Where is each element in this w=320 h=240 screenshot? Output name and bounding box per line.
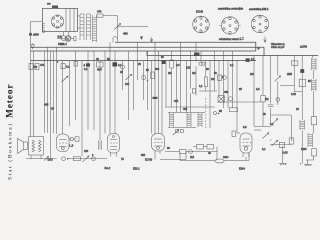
wire osc link (118, 26, 149, 28)
capacitor C1 (29, 33, 32, 36)
loudspeaker LS1 (18, 139, 28, 154)
svg-text:1200: 1200 (301, 148, 307, 151)
svg-text:4M7: 4M7 (97, 69, 102, 72)
svg-text:0,1: 0,1 (262, 148, 266, 151)
wire V3 pins (111, 153, 117, 157)
coil L4 (170, 113, 174, 128)
svg-text:ECH3: ECH3 (145, 158, 153, 162)
wire (165, 106, 215, 108)
tube V2 envelope (57, 134, 70, 152)
resistor R15 (207, 145, 214, 150)
contact (92, 157, 96, 161)
svg-text:466: 466 (123, 32, 128, 36)
svg-text:0,1: 0,1 (66, 65, 70, 69)
resistor R14 (197, 145, 204, 150)
svg-text:Waarden in: Waarden in (271, 42, 285, 46)
capacitor C5 (61, 64, 65, 69)
svg-text:470: 470 (33, 66, 38, 69)
choke L7 (312, 58, 317, 70)
resistor R18 (280, 142, 285, 147)
junction blob (140, 37, 143, 40)
resistor R7 (230, 108, 238, 112)
tube V4 envelope (152, 134, 165, 152)
wire (199, 90, 217, 92)
svg-text:0,1: 0,1 (118, 64, 122, 67)
svg-text:0,5: 0,5 (176, 64, 180, 67)
svg-text:±10%: ±10% (300, 45, 307, 49)
resistor R21 (74, 62, 78, 67)
switch arrow S4 (83, 156, 90, 162)
svg-text:0,5: 0,5 (243, 126, 247, 129)
wire (166, 42, 237, 133)
svg-text:0,05: 0,05 (283, 151, 289, 155)
wire (254, 56, 313, 164)
svg-text:465: 465 (174, 100, 179, 103)
svg-text:Ohm en pF: Ohm en pF (271, 45, 285, 49)
tube socket S3 top view (251, 15, 268, 32)
wire main HT rail top (115, 42, 256, 51)
svg-text:EM4: EM4 (239, 167, 245, 171)
wire top right stub (264, 37, 267, 43)
wire (160, 152, 217, 160)
svg-text:Star (Boekema): Star (Boekema) (7, 122, 14, 180)
trimmer arrow (114, 24, 121, 30)
svg-text:schakelaar stand 1: schakelaar stand 1 (219, 37, 241, 41)
coil L6 (198, 113, 202, 128)
switch arrow (44, 156, 49, 160)
resistor R12 (75, 137, 79, 141)
wire (193, 144, 217, 161)
switch contacts (62, 157, 66, 161)
wire rail right side (257, 47, 259, 49)
svg-text:1 ,5: 1 ,5 (69, 145, 74, 148)
trimmer arrow C6 (62, 76, 69, 82)
svg-text:1M: 1M (192, 72, 195, 75)
pot arrow volume (272, 119, 278, 125)
svg-text:L.T.: L.T. (240, 38, 244, 41)
coil L2 tapped ladder (93, 15, 97, 42)
svg-text:aansluiting onderzijde: aansluiting onderzijde (218, 6, 244, 10)
wire (82, 42, 115, 156)
wire avc arrow (150, 37, 153, 42)
dashed coupling line (205, 98, 207, 128)
tube socket S2 top view (219, 17, 240, 34)
junction dots (147, 80, 148, 81)
pin circles (175, 129, 179, 133)
svg-text:465: 465 (44, 103, 49, 107)
resistor R1 top (97, 14, 103, 17)
wire T4 pins (243, 153, 249, 161)
wire rail 3 (31, 50, 256, 52)
junction cap (153, 97, 158, 99)
svg-text:2M: 2M (168, 72, 171, 75)
wire (237, 130, 301, 164)
wire box internals (66, 8, 74, 31)
wire (63, 51, 76, 134)
electrolytic C13 (299, 79, 305, 87)
wire (313, 91, 315, 133)
wire (270, 144, 291, 146)
coil L1 left comb (43, 24, 45, 33)
svg-text:350: 350 (141, 154, 146, 157)
wire (306, 156, 314, 160)
pin circle (276, 98, 280, 102)
resistor R3 (151, 72, 155, 79)
svg-text:6,3v: 6,3v (58, 36, 63, 39)
wire (168, 113, 205, 128)
oscillator box U1 (43, 8, 78, 31)
capacitor C4 (35, 64, 39, 70)
wire (282, 146, 284, 163)
pot arrow 2 (272, 140, 278, 146)
wire rail 2 (31, 47, 265, 55)
svg-text:0,1: 0,1 (230, 64, 234, 67)
trimmer arrows under coils (173, 130, 179, 136)
box R19 (311, 117, 316, 125)
wire mains line (180, 153, 249, 161)
IF transformer T1 coil A (80, 14, 84, 40)
svg-text:100: 100 (125, 83, 130, 86)
svg-text:300: 300 (155, 68, 160, 71)
wire V4 pins (155, 151, 160, 160)
ground G2 (304, 165, 312, 167)
coil L3 comb (99, 140, 102, 150)
resistor R11 (74, 157, 81, 161)
output tube T4 envelope (240, 133, 252, 153)
svg-text:0,02: 0,02 (291, 93, 296, 96)
svg-text:0,1: 0,1 (270, 123, 274, 126)
wire (31, 47, 34, 136)
ground G1 (279, 164, 287, 166)
svg-text:150: 150 (84, 150, 89, 153)
svg-text:0,5: 0,5 (256, 88, 260, 91)
resistor R20 (218, 75, 222, 81)
tube V3 envelope (108, 134, 120, 154)
capacitor C10 (194, 53, 200, 57)
wire avc (218, 101, 261, 103)
svg-text:0,1: 0,1 (251, 58, 255, 61)
wire antenna input drop (31, 21, 43, 47)
svg-text:ECH3: ECH3 (196, 10, 203, 14)
value labels scatter (33, 58, 311, 161)
resistor R2 (97, 62, 104, 67)
capacitor C8 (113, 62, 118, 66)
svg-text:470: 470 (40, 64, 45, 67)
capacitor C11 (246, 58, 250, 62)
svg-text:1M: 1M (250, 73, 253, 76)
coil comb on C line (300, 120, 305, 130)
svg-text:220v: 220v (223, 156, 229, 159)
tube V1 socket in box (51, 15, 63, 27)
svg-text:EK3: EK3 (48, 158, 54, 162)
svg-text:Meteor: Meteor (6, 84, 16, 118)
wire box to coils (78, 16, 81, 28)
contact (189, 150, 193, 154)
wire (313, 70, 315, 79)
svg-text:a500: a500 (33, 33, 39, 37)
capacitor C17 (300, 69, 304, 73)
tube socket S1 top view (193, 16, 210, 33)
pin circle (223, 76, 227, 80)
pin circle (229, 97, 233, 101)
resistor R6 (192, 89, 195, 93)
capacitor C15 (232, 131, 236, 137)
svg-text:1k2: 1k2 (190, 156, 195, 159)
switch contacts (214, 112, 217, 115)
svg-text:2M: 2M (265, 98, 268, 101)
svg-text:0,1: 0,1 (199, 85, 203, 88)
resistor R4 (170, 60, 174, 68)
svg-text:aansluiting EBL1: aansluiting EBL1 (249, 7, 269, 11)
wire rail 4 chassis (31, 60, 257, 62)
switch box with cross (218, 96, 225, 103)
pin circle (70, 137, 73, 140)
svg-text:2M5: 2M5 (287, 73, 292, 76)
jack J hook (113, 37, 117, 43)
resistor R16 (261, 95, 265, 102)
svg-text:0,1: 0,1 (84, 68, 88, 71)
svg-text:470: 470 (97, 10, 102, 14)
pot arrow tone (263, 133, 269, 139)
svg-text:EBL1: EBL1 (133, 167, 140, 171)
dial lamp P1 (57, 36, 74, 42)
wire speaker leads (31, 155, 41, 159)
capacitor C7 (86, 63, 90, 66)
pin circle (121, 65, 125, 69)
fuse F1 (74, 37, 76, 41)
svg-text:466: 466 (224, 91, 229, 94)
svg-text:0,2A: 0,2A (60, 43, 65, 46)
wire (123, 42, 148, 120)
resistor R17 (289, 138, 294, 144)
capacitor C16 ticks (268, 105, 274, 107)
mains cable loop (215, 159, 224, 163)
wire (280, 85, 302, 92)
wire bottom chain left (26, 158, 107, 160)
choke L8 (312, 79, 317, 91)
trimmer arrow (126, 74, 132, 80)
resistor R5 vertical (204, 77, 207, 87)
output transformer T5 (29, 137, 44, 156)
wire V2 aux (69, 138, 75, 140)
wire (179, 153, 181, 161)
pin circles (199, 62, 202, 65)
svg-text:128: 128 (186, 67, 191, 70)
capacitor C2 on box top (52, 6, 58, 9)
wire top link (103, 16, 118, 43)
resistor R10 (312, 149, 317, 157)
svg-text:1M: 1M (211, 78, 214, 81)
resistor R8 (292, 61, 298, 65)
aerial terminal (31, 43, 35, 49)
svg-text:465: 465 (183, 108, 188, 111)
choke L9 (308, 133, 313, 147)
pilot lamps under box (61, 36, 66, 41)
pin circle (142, 76, 146, 80)
capacitor C9 (162, 60, 166, 64)
IF transformer T1 coil B (87, 14, 91, 40)
pot arrow P2 (275, 76, 281, 82)
wire (152, 42, 163, 133)
coil L5 (187, 113, 191, 128)
capacitor C3 (29, 64, 33, 70)
resistor R13 (180, 149, 187, 153)
wire tuning section (45, 47, 57, 159)
wire (254, 115, 291, 126)
svg-text:No.2: No.2 (105, 166, 111, 170)
